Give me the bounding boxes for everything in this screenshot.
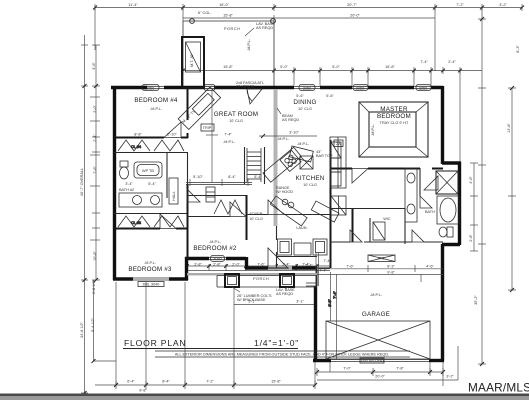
svg-text:14'-8": 14'-8" [507,123,511,133]
svg-text:ON BRICK: ON BRICK [236,85,255,89]
svg-text:5'-10": 5'-10" [193,175,203,179]
svg-text:20'-0": 20'-0" [375,375,385,379]
svg-text:16'-8": 16'-8" [385,65,395,69]
svg-text:10' CLG: 10' CLG [229,119,243,123]
svg-text:MAAR/MLS: MAAR/MLS [468,381,529,395]
svg-text:WIC: WIC [383,217,391,221]
svg-text:3'-2": 3'-2" [446,375,454,379]
svg-text:3'-4": 3'-4" [125,182,133,186]
svg-text:7'-4": 7'-4" [420,60,428,64]
svg-text:3050: 3050 [146,86,154,90]
svg-text:9'-8": 9'-8" [139,389,147,393]
svg-text:3'-6": 3'-6" [92,62,96,70]
svg-text:7'-4": 7'-4" [224,133,232,137]
svg-text:16'-0": 16'-0" [219,3,229,7]
svg-text:3050: 3050 [356,86,364,90]
svg-text:2'-4": 2'-4" [93,134,97,142]
svg-text:BATH #2: BATH #2 [119,188,134,192]
svg-text:FOYER: FOYER [249,212,262,216]
svg-text:2'-0": 2'-0" [93,105,97,113]
svg-text:7'-6": 7'-6" [346,265,354,269]
svg-text:11'-4": 11'-4" [128,3,138,7]
svg-text:GARAGE: GARAGE [362,311,390,318]
svg-text:9'-8": 9'-8" [387,271,395,275]
svg-text:6'-4": 6'-4" [127,380,135,384]
svg-text:W/ HOOD: W/ HOOD [276,190,293,194]
svg-text:FLOOR PLAN: FLOOR PLAN [124,338,186,348]
svg-text:3'-2": 3'-2" [499,3,507,7]
svg-text:4'-6": 4'-6" [469,176,473,184]
svg-text:BEDROOM: BEDROOM [377,113,411,120]
svg-text:3050: 3050 [303,86,311,90]
svg-text:5'-0": 5'-0" [332,65,340,69]
svg-text:20'-0": 20'-0" [350,14,360,18]
svg-text:3050: 3050 [213,257,221,261]
svg-text:5'-0": 5'-0" [280,65,288,69]
svg-text:-M.P.L-: -M.P.L- [144,261,157,265]
svg-text:7'-8": 7'-8" [396,367,404,371]
svg-text:8'-4": 8'-4" [228,175,236,179]
svg-text:35'-2": 35'-2" [474,295,478,305]
svg-text:5'-6": 5'-6" [296,94,304,98]
svg-text:2'-8": 2'-8" [469,234,473,242]
svg-text:AS REQD: AS REQD [282,118,299,122]
svg-text:3050: 3050 [419,86,427,90]
svg-text:5'-4": 5'-4" [148,182,156,186]
svg-text:15'-8": 15'-8" [223,14,233,18]
svg-text:PORCH: PORCH [253,277,269,281]
svg-text:7'-2": 7'-2" [206,380,214,384]
svg-text:8'-8": 8'-8" [134,133,142,137]
svg-text:WP TB: WP TB [142,169,154,173]
svg-text:15'-8": 15'-8" [223,65,233,69]
svg-text:3'-1": 3'-1" [296,300,304,304]
svg-text:2A: 2A [336,142,341,146]
svg-text:16/0 8/0 OHD: 16/0 8/0 OHD [360,359,383,363]
svg-text:-M.P.L-: -M.P.L- [209,240,222,244]
svg-text:-M.P.L-: -M.P.L- [370,293,383,297]
svg-text:8'-3": 8'-3" [516,45,520,53]
svg-text:8'-8": 8'-8" [328,299,332,307]
svg-text:2'-4": 2'-4" [448,60,456,64]
svg-text:1/4"=1'-0": 1/4"=1'-0" [254,338,299,348]
svg-text:8'-4": 8'-4" [162,380,170,384]
svg-text:LAUN.: LAUN. [296,226,307,230]
svg-text:5'-6": 5'-6" [326,94,334,98]
svg-text:4'-6": 4'-6" [426,265,434,269]
svg-text:10' CLG: 10' CLG [298,107,312,111]
svg-text:BATH: BATH [425,210,435,214]
svg-text:9'-4 1/2": 9'-4 1/2" [91,317,95,332]
svg-text:34'-8 1/2": 34'-8 1/2" [80,321,84,338]
svg-text:7'-6": 7'-6" [257,263,265,267]
svg-text:BEDROOM #2: BEDROOM #2 [193,245,237,252]
svg-text:10' CLG: 10' CLG [249,217,263,221]
svg-text:8'-3": 8'-3" [387,265,395,269]
svg-text:7'-4": 7'-4" [319,269,327,273]
svg-text:7'-4": 7'-4" [333,291,337,299]
svg-text:2'-4": 2'-4" [305,264,313,268]
svg-text:ALL EXTERIOR DIMENSIONS ARE ME: ALL EXTERIOR DIMENSIONS ARE MEASURED FRO… [175,353,389,357]
svg-text:7'-2": 7'-2" [456,3,464,7]
svg-text:BEDROOM #4: BEDROOM #4 [134,97,178,104]
svg-text:-M.P.L-: -M.P.L- [277,137,290,141]
svg-text:M.T. 36": M.T. 36" [190,52,194,66]
svg-text:10'-6": 10'-6" [93,251,97,261]
svg-text:CL #4: CL #4 [131,145,141,149]
svg-text:AS REQD: AS REQD [256,26,273,30]
svg-text:AS REQD: AS REQD [276,292,293,296]
svg-text:2'-0": 2'-0" [232,263,240,267]
svg-text:-M.P.L-: -M.P.L- [150,107,163,111]
svg-text:W/ BRICK BASE: W/ BRICK BASE [237,298,266,302]
svg-text:HALL: HALL [172,191,176,201]
svg-text:BEDROOM #3: BEDROOM #3 [128,266,172,273]
svg-text:TRAY CLG 9' HT: TRAY CLG 9' HT [380,121,409,125]
svg-text:GREAT ROOM: GREAT ROOM [214,111,258,118]
svg-text:10' CLG: 10' CLG [303,183,317,187]
svg-text:KITCHEN: KITCHEN [295,175,324,182]
svg-text:3'-10": 3'-10" [289,131,299,135]
svg-text:2'-8": 2'-8" [194,263,202,267]
svg-text:CL #3: CL #3 [131,221,141,225]
svg-text:40'-7" OVERALL: 40'-7" OVERALL [80,168,84,196]
svg-text:-M.P.L-: -M.P.L- [371,123,375,136]
svg-text:-M.P.L-: -M.P.L- [297,142,310,146]
svg-text:-M.P.L-: -M.P.L- [247,38,251,51]
svg-text:6" COL.: 6" COL. [198,11,211,15]
svg-text:DINING: DINING [293,99,316,106]
svg-text:TRIP: TRIP [203,126,212,130]
svg-text:PORCH: PORCH [224,27,240,31]
svg-text:2'-8": 2'-8" [213,263,221,267]
svg-text:-M.P.L-: -M.P.L- [223,140,236,144]
svg-text:7'-0": 7'-0" [343,367,351,371]
svg-text:ATS: ATS [377,257,385,261]
svg-text:7'-6": 7'-6" [93,166,97,174]
svg-text:15'-8": 15'-8" [271,380,281,384]
svg-text:BAR TOP: BAR TOP [316,154,333,158]
svg-text:20'-7": 20'-7" [347,3,357,7]
svg-text:DBL 3040: DBL 3040 [143,283,160,287]
